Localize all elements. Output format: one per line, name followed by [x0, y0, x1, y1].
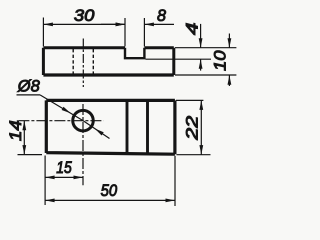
leader Ø8 shoulder [17, 94, 41, 96]
svg-text:15: 15 [56, 159, 72, 177]
extension: notch bottom extended right [146, 58, 212, 60]
dim 22 [200, 100, 202, 154]
extension: bottom line extended right [175, 74, 236, 76]
svg-text:50: 50 [101, 182, 118, 200]
hidden line (hole) left [72, 49, 74, 74]
extension line notch right (dim 8) [143, 18, 145, 46]
dim 15 [45, 176, 83, 178]
dim 14 [23, 121, 25, 155]
leader diagonal through circle [40, 95, 110, 139]
dimension line 30 [43, 23, 125, 25]
svg-text:4: 4 [182, 23, 201, 36]
top view bottom edge [43, 73, 173, 76]
hole circle [73, 110, 94, 131]
leader arrowhead upper [62, 107, 71, 114]
svg-text:30: 30 [74, 6, 95, 25]
extension top right (dim 22) [176, 99, 203, 101]
front inner line right [146, 100, 149, 153]
hidden line (hole) right [92, 49, 94, 74]
vertical centerline [82, 104, 84, 185]
dimension line 8 (outside arrows) [101, 23, 125, 25]
leader arrowhead lower [95, 129, 104, 136]
dimension 10 (outside arrows) [228, 34, 230, 48]
svg-text:10: 10 [211, 50, 230, 71]
extension line left (dim 30) [42, 18, 44, 47]
extension: top line extended right [175, 47, 236, 49]
top view outline [43, 48, 173, 75]
svg-text:22: 22 [182, 115, 201, 141]
extension bottom right (dim 22) [177, 154, 211, 156]
svg-text:Ø8: Ø8 [17, 77, 40, 96]
extension line notch left (dim 30/8) [124, 18, 126, 46]
extension left below (dims 15/50) [44, 156, 46, 206]
dim 50 [45, 199, 175, 201]
extension bottom left (dim 14) [18, 154, 43, 156]
svg-text:8: 8 [157, 6, 167, 25]
extension right below (dim 50) [174, 156, 176, 206]
dimension 4 (outside arrows) [200, 24, 202, 48]
svg-text:14: 14 [6, 120, 25, 141]
centerline top view [82, 39, 84, 88]
front inner line left [126, 100, 129, 153]
horizontal centerline [18, 120, 103, 122]
front view outline [46, 100, 175, 154]
